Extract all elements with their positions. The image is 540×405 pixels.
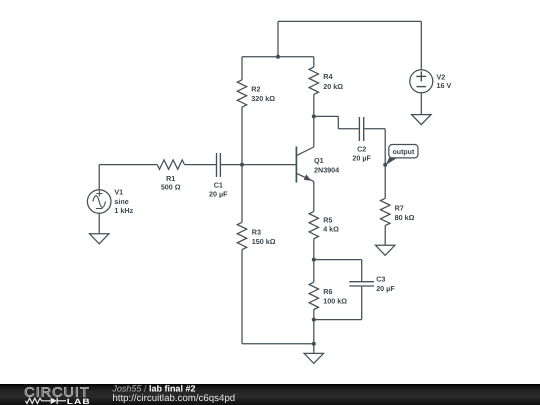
svg-text:20 µF: 20 µF (209, 189, 228, 198)
svg-text:Q1: Q1 (314, 156, 324, 165)
svg-text:20 µF: 20 µF (352, 154, 371, 163)
svg-text:1 kHz: 1 kHz (114, 206, 133, 215)
svg-text:R6: R6 (323, 287, 332, 296)
svg-text:320 kΩ: 320 kΩ (251, 94, 275, 103)
svg-text:R5: R5 (323, 215, 332, 224)
svg-text:500 Ω: 500 Ω (161, 183, 181, 192)
svg-text:http://circuitlab.com/c6qs4pd: http://circuitlab.com/c6qs4pd (112, 393, 235, 404)
svg-text:C2: C2 (357, 144, 366, 153)
svg-text:V1: V1 (114, 188, 123, 197)
svg-text:100 kΩ: 100 kΩ (323, 296, 347, 305)
svg-text:C1: C1 (214, 181, 223, 190)
svg-text:150 kΩ: 150 kΩ (252, 237, 276, 246)
svg-text:20 µF: 20 µF (376, 284, 395, 293)
svg-text:output: output (393, 149, 415, 156)
svg-text:4 kΩ: 4 kΩ (323, 225, 339, 234)
svg-text:R4: R4 (323, 72, 332, 81)
svg-text:C3: C3 (376, 275, 385, 284)
svg-text:R7: R7 (395, 204, 404, 213)
svg-text:16 V: 16 V (437, 81, 452, 90)
svg-text:Josh55 / lab final #2: Josh55 / lab final #2 (111, 384, 195, 394)
svg-text:R2: R2 (251, 85, 260, 94)
svg-text:R3: R3 (252, 228, 261, 237)
svg-text:80 kΩ: 80 kΩ (395, 213, 415, 222)
svg-text:2N3904: 2N3904 (314, 166, 339, 175)
svg-text:20 kΩ: 20 kΩ (323, 82, 343, 91)
svg-text:LAB: LAB (67, 397, 91, 405)
svg-text:sine: sine (114, 197, 128, 206)
